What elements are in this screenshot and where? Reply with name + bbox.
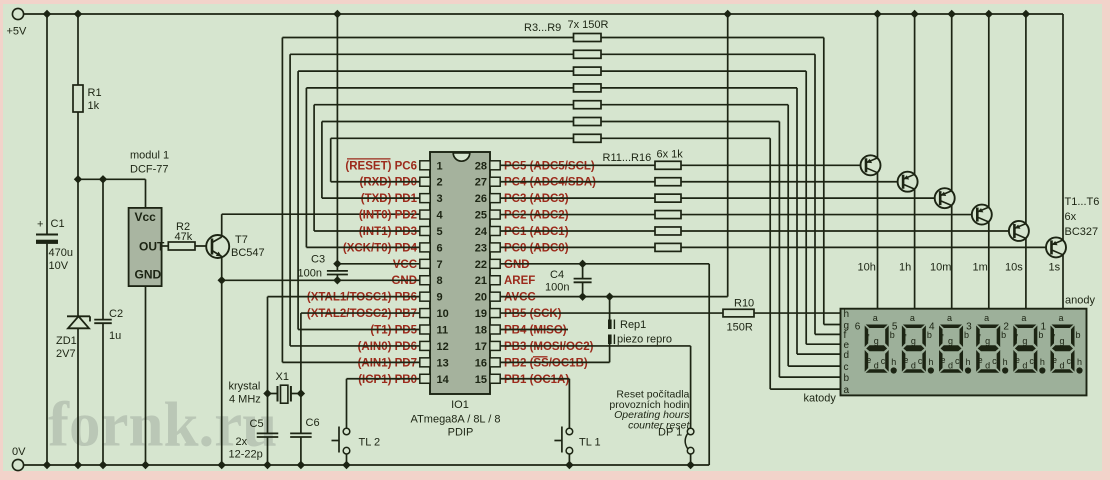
transistor T4 <box>972 205 992 225</box>
wire +5V to VCC pin7 <box>333 10 420 268</box>
label 6x <box>1065 211 1077 223</box>
wire C5 to ground <box>263 437 271 469</box>
svg-text:b: b <box>1076 330 1081 340</box>
svg-text:17: 17 <box>475 341 487 353</box>
svg-text:a: a <box>947 313 952 323</box>
IC pin box 28 <box>490 161 500 170</box>
wire T6 collector to display <box>1062 255 1064 309</box>
capacitor C2 <box>94 308 123 342</box>
svg-text:25: 25 <box>475 210 487 222</box>
resistor R8 <box>574 118 602 126</box>
svg-text:PC3 (ADC3): PC3 (ADC3) <box>504 193 569 205</box>
display block katody label <box>804 393 837 405</box>
display cathode pin g <box>844 320 850 331</box>
resistor R16 <box>655 243 681 251</box>
IC pin number 16 <box>475 357 487 369</box>
svg-text:10s: 10s <box>1005 262 1023 274</box>
svg-text:10: 10 <box>437 308 449 320</box>
IC pin number 24 <box>475 226 488 238</box>
+5V terminal <box>7 8 28 37</box>
svg-text:(TXD) PD1: (TXD) PD1 <box>361 193 418 205</box>
svg-text:h: h <box>1003 357 1008 367</box>
IC pin 9 label (XTAL1/TOSC1) PB6 <box>307 292 417 304</box>
resistor R3 <box>574 34 602 42</box>
wire R9 row right <box>601 138 842 389</box>
svg-text:(T1) PD5: (T1) PD5 <box>370 325 417 337</box>
label R3...R9 <box>524 22 561 34</box>
IC pin 13 label (AIN1) PD7 <box>358 357 417 369</box>
svg-text:C2: C2 <box>109 308 123 320</box>
resistor R14 <box>655 211 681 219</box>
svg-text:0V: 0V <box>12 446 26 458</box>
resistor R10 <box>723 298 754 334</box>
svg-text:c: c <box>1067 356 1072 366</box>
display module body <box>841 309 1087 396</box>
resistor R7 <box>574 101 602 109</box>
IC part ATmega8A / 8L / 8 <box>411 414 501 426</box>
svg-text:BC547: BC547 <box>231 247 265 259</box>
svg-text:h: h <box>1040 357 1045 367</box>
label 10h <box>858 262 876 274</box>
svg-text:c: c <box>992 356 997 366</box>
wire C2 branch <box>102 179 104 319</box>
pushbutton TL 1 <box>554 427 600 470</box>
svg-text:2: 2 <box>437 177 443 189</box>
wire piezo to PB2 pin16 <box>500 344 609 362</box>
svg-text:c: c <box>881 356 886 366</box>
svg-text:h: h <box>966 357 971 367</box>
svg-text:24: 24 <box>475 226 488 238</box>
resistor R15 <box>655 227 681 235</box>
svg-text:g: g <box>1022 336 1027 346</box>
IC pin number 11 <box>437 325 449 337</box>
svg-text:10V: 10V <box>49 260 69 272</box>
wire R14 to T4 base <box>681 214 972 216</box>
svg-text:PDIP: PDIP <box>448 427 474 439</box>
svg-text:g: g <box>948 336 953 346</box>
wire R13 to T3 base <box>681 197 935 199</box>
label 1m <box>973 262 988 274</box>
svg-text:TL 1: TL 1 <box>579 437 601 449</box>
wire C3 to GND row <box>333 275 341 285</box>
svg-text:d: d <box>1022 361 1027 371</box>
resistor R5 <box>574 67 602 75</box>
IC pin number 26 <box>475 193 487 205</box>
svg-text:28: 28 <box>475 160 487 172</box>
svg-text:Rep1: Rep1 <box>620 319 646 331</box>
svg-text:+5V: +5V <box>7 26 28 38</box>
svg-text:PB5 (SCK): PB5 (SCK) <box>504 308 562 320</box>
wire T4 collector to display <box>988 222 990 309</box>
display digit 3 <box>966 313 1008 374</box>
resistor R11 <box>655 161 681 169</box>
svg-text:d: d <box>911 361 916 371</box>
svg-text:470u: 470u <box>49 247 73 259</box>
IC package PDIP <box>448 427 474 439</box>
wire R15 to T5 base <box>681 230 1009 232</box>
svg-text:a: a <box>1021 313 1026 323</box>
IC pin box 27 <box>490 177 500 186</box>
svg-text:VCC: VCC <box>393 259 417 271</box>
IC pin 12 label (AIN0) PD6 <box>358 341 417 353</box>
svg-text:8: 8 <box>437 275 443 287</box>
svg-text:R3...R9: R3...R9 <box>524 22 561 34</box>
wire C6 to ground <box>297 437 305 469</box>
IC pin box 25 <box>490 210 500 219</box>
IC pin box 10 <box>420 309 430 318</box>
svg-text:C3: C3 <box>311 254 325 266</box>
IC pin number 13 <box>437 357 449 369</box>
svg-text:7x 150R: 7x 150R <box>568 19 609 31</box>
svg-text:5: 5 <box>892 322 898 333</box>
IC pin 17 label PB3 (MOSI/OC2) <box>504 341 594 353</box>
label 10s <box>1005 262 1023 274</box>
svg-text:PB1 (OC1A): PB1 (OC1A) <box>504 374 569 386</box>
svg-text:(XCK/T0) PD4: (XCK/T0) PD4 <box>343 242 418 254</box>
svg-text:3: 3 <box>966 322 972 333</box>
transistor T6 <box>1046 237 1066 257</box>
svg-text:4: 4 <box>437 210 444 222</box>
wire GND pin22 to ground rail <box>500 260 709 465</box>
wire C2 to ground <box>99 323 107 469</box>
svg-text:PB2 (SS/OC1B): PB2 (SS/OC1B) <box>504 357 588 369</box>
IC pin number 27 <box>475 177 487 189</box>
IC pin 15 label PB1 (OC1A) <box>504 374 569 386</box>
svg-text:e: e <box>1052 355 1057 365</box>
IC pin 22 label GND <box>504 259 530 271</box>
svg-text:10h: 10h <box>858 262 876 274</box>
svg-text:OUT: OUT <box>139 240 165 254</box>
wire R6 row left <box>306 88 573 248</box>
wire R4 row left <box>290 54 573 346</box>
IC pin box 21 <box>490 276 500 285</box>
svg-text:5: 5 <box>437 226 443 238</box>
IC pin box 17 <box>490 341 500 350</box>
label 7x 150R <box>568 19 609 31</box>
IC pin number 10 <box>437 308 449 320</box>
svg-text:d: d <box>844 350 850 361</box>
IC pin number 28 <box>475 160 487 172</box>
IC pin number 1 <box>437 160 443 172</box>
svg-text:1: 1 <box>1041 322 1047 333</box>
wire R8 row right <box>601 122 842 378</box>
svg-text:100n: 100n <box>298 268 322 280</box>
resistor R1 <box>73 85 102 112</box>
wire R9 row left <box>331 138 574 181</box>
display digit 6 <box>855 313 897 374</box>
label BC327 <box>1065 226 1099 238</box>
wire R12 to T2 base <box>681 181 898 183</box>
wire T3 emitter to +5V <box>948 10 956 191</box>
IC pin number 9 <box>437 292 443 304</box>
svg-text:g: g <box>985 336 990 346</box>
svg-text:1: 1 <box>437 160 443 172</box>
IC pin number 6 <box>437 242 443 254</box>
svg-text:C5: C5 <box>250 418 264 430</box>
label 1s <box>1049 262 1061 274</box>
resistor R4 <box>574 50 602 58</box>
svg-text:b: b <box>844 373 850 384</box>
display cathode pin f <box>844 330 847 341</box>
wire pin25 to R14 <box>500 214 655 216</box>
wire R3 row left <box>282 38 573 363</box>
svg-text:e: e <box>1015 355 1020 365</box>
svg-text:R1: R1 <box>88 87 102 99</box>
IC pin number 8 <box>437 275 443 287</box>
svg-text:(AIN1) PD7: (AIN1) PD7 <box>358 357 417 369</box>
IC pin 27 label PC4 (ADC4/SDA) <box>504 177 596 189</box>
wire +5V top rail <box>24 13 1063 15</box>
wire module OUT to R2 <box>162 245 169 247</box>
wire R16 to T6 base <box>681 246 1046 248</box>
IC pin 26 label PC3 (ADC3) <box>504 193 569 205</box>
svg-text:a: a <box>910 313 915 323</box>
wire GND pin8 row <box>222 279 420 281</box>
wire T5 emitter to +5V <box>1022 10 1030 224</box>
IC pin box 24 <box>490 226 500 235</box>
capacitor C1 <box>36 218 73 272</box>
IC pin number 21 <box>475 275 487 287</box>
IC pin box 23 <box>490 243 500 252</box>
svg-text:h: h <box>1077 357 1082 367</box>
wire T2 emitter to +5V <box>910 10 918 175</box>
IC pin 18 label PB4 (MISO) <box>504 325 567 337</box>
IC pin box 12 <box>420 341 430 350</box>
svg-text:22: 22 <box>475 259 487 271</box>
IC pin number 19 <box>475 308 487 320</box>
IC pin box 22 <box>490 259 500 268</box>
svg-text:19: 19 <box>475 308 487 320</box>
svg-text:7: 7 <box>437 259 443 271</box>
crystal X1 <box>263 371 305 403</box>
wire T4 emitter to +5V <box>985 10 993 207</box>
IC pin number 12 <box>437 341 449 353</box>
svg-text:AVCC: AVCC <box>504 292 536 304</box>
svg-text:PB4 (MISO): PB4 (MISO) <box>504 325 567 337</box>
svg-text:16: 16 <box>475 357 487 369</box>
IC pin box 15 <box>490 374 500 383</box>
transistor T7 <box>206 234 264 259</box>
pushbutton TL 2 <box>332 427 381 470</box>
capacitor C6 <box>290 394 319 438</box>
svg-text:6: 6 <box>855 322 861 333</box>
transistor T2 <box>898 172 918 192</box>
0V terminal <box>12 446 26 471</box>
svg-text:c: c <box>918 356 923 366</box>
wire pin24 to R15 <box>500 230 655 232</box>
IC pin 3 label (TXD) PD1 <box>361 193 418 205</box>
label R11...R16 <box>603 152 652 164</box>
svg-text:14: 14 <box>437 374 450 386</box>
svg-text:1s: 1s <box>1049 262 1061 274</box>
transistor T3 <box>935 188 955 208</box>
wire pin27 to R12 <box>500 181 655 183</box>
label 2x 12-22p <box>229 436 263 461</box>
svg-text:PB3 (MOSI/OC2): PB3 (MOSI/OC2) <box>504 341 594 353</box>
svg-text:GND: GND <box>391 275 417 287</box>
IC pin 21 label AREF <box>504 275 535 287</box>
svg-text:katody: katody <box>804 393 837 405</box>
IC pin box 1 <box>420 161 430 170</box>
svg-text:6x 1k: 6x 1k <box>657 149 684 161</box>
svg-text:6x: 6x <box>1065 211 1077 223</box>
IC pin 28 label PC5 (ADC5/SCL) <box>504 160 595 172</box>
wire R3 row right <box>601 38 842 325</box>
IC pin 11 label (T1) PD5 <box>370 325 417 337</box>
svg-text:e: e <box>866 355 871 365</box>
svg-text:h: h <box>891 357 896 367</box>
svg-text:ZD1: ZD1 <box>56 335 77 347</box>
IC pin 19 label PB5 (SCK) <box>504 308 562 320</box>
svg-text:DCF-77: DCF-77 <box>130 164 169 176</box>
svg-text:c: c <box>844 362 849 373</box>
svg-text:g: g <box>874 336 879 346</box>
wire ZD1 to ground <box>74 328 82 469</box>
wire R4 row right <box>601 54 842 334</box>
svg-text:1h: 1h <box>899 262 911 274</box>
svg-text:12-22p: 12-22p <box>229 449 263 461</box>
svg-text:a: a <box>984 313 989 323</box>
svg-text:d: d <box>1060 361 1065 371</box>
svg-text:(XTAL2/TOSC2) PB7: (XTAL2/TOSC2) PB7 <box>307 308 417 320</box>
svg-text:T1...T6: T1...T6 <box>1065 196 1100 208</box>
IC pin box 19 <box>490 309 500 318</box>
wire T1 collector to display <box>877 173 879 309</box>
display cathode pin h <box>844 309 850 320</box>
wire C1 branch <box>43 10 51 469</box>
IC pin 10 label (XTAL2/TOSC2) PB7 <box>307 308 417 320</box>
svg-text:g: g <box>1060 336 1065 346</box>
IC pin 2 label (RXD) PD0 <box>359 177 417 189</box>
svg-text:R11...R16: R11...R16 <box>603 152 652 164</box>
wire R6 row right <box>601 88 842 354</box>
svg-text:anody: anody <box>1065 295 1095 307</box>
svg-text:ATmega8A / 8L / 8: ATmega8A / 8L / 8 <box>411 414 501 426</box>
label 1h <box>899 262 911 274</box>
IC pin box 18 <box>490 325 500 334</box>
IC designator IO1 <box>451 399 469 411</box>
IC pin number 14 <box>437 374 450 386</box>
svg-text:20: 20 <box>475 292 487 304</box>
IC pin box 5 <box>420 226 430 235</box>
IC pin number 4 <box>437 210 444 222</box>
IC pin box 8 <box>420 276 430 285</box>
IC pin box 4 <box>420 210 430 219</box>
note reset counter <box>609 389 690 432</box>
IC pin 20 label AVCC <box>504 292 536 304</box>
svg-text:BC327: BC327 <box>1065 226 1099 238</box>
resistor R6 <box>574 84 602 92</box>
module U-DCF77 label <box>130 150 169 176</box>
resistor R9 <box>574 134 602 142</box>
svg-text:(AIN0) PD6: (AIN0) PD6 <box>358 341 417 353</box>
svg-text:e: e <box>978 355 983 365</box>
svg-text:T7: T7 <box>235 234 248 246</box>
svg-text:h: h <box>928 357 933 367</box>
svg-text:h: h <box>844 309 850 320</box>
display digit 2 <box>1003 313 1045 374</box>
svg-text:PC2 (ADC2): PC2 (ADC2) <box>504 210 569 222</box>
wire PB1 pin15 to TL1 <box>500 379 569 428</box>
svg-text:(RXD) PD0: (RXD) PD0 <box>359 177 417 189</box>
IC pin box 14 <box>420 374 430 383</box>
svg-text:3: 3 <box>437 193 443 205</box>
svg-text:2x: 2x <box>236 436 248 448</box>
display cathode pin a <box>844 385 850 396</box>
display cathode pin c <box>844 362 849 373</box>
IC pin number 20 <box>475 292 487 304</box>
svg-text:GND: GND <box>504 259 530 271</box>
transistor T5 <box>1009 221 1029 241</box>
svg-text:PC1 (ADC1): PC1 (ADC1) <box>504 226 569 238</box>
wire T5 collector to display <box>1025 238 1027 308</box>
IC pin 14 label (ICP1) PB0 <box>358 374 417 386</box>
IC pin 7 label VCC <box>393 259 417 271</box>
capacitor C4 <box>545 264 592 297</box>
wire T3 collector to display <box>951 206 953 309</box>
IC pin box 2 <box>420 177 430 186</box>
IC pin number 18 <box>475 325 487 337</box>
svg-text:15: 15 <box>475 374 487 386</box>
svg-text:counter reset: counter reset <box>628 419 690 431</box>
IC pin 1 label (RESET) PC6 with overline <box>345 159 417 172</box>
IC pin box 16 <box>490 358 500 367</box>
display cathode pin d <box>844 350 850 361</box>
IC pin 23 label PC0 (ADC0) <box>504 242 569 254</box>
display cathode pin b <box>844 373 850 384</box>
svg-text:modul 1: modul 1 <box>130 150 169 162</box>
IC pin 5 label (INT1) PD3 <box>359 226 417 238</box>
IC pin 6 label (XCK/T0) PD4 <box>343 242 418 254</box>
piezo Rep1 <box>608 319 672 346</box>
IC pin box 26 <box>490 194 500 203</box>
wire supply row to module <box>78 175 146 208</box>
svg-text:X1: X1 <box>276 371 289 383</box>
svg-text:47k: 47k <box>175 231 193 243</box>
IC pin number 22 <box>475 259 487 271</box>
wire R2 to T7 base <box>195 245 212 247</box>
svg-text:6: 6 <box>437 242 443 254</box>
display block anody label <box>1065 295 1095 307</box>
display digit 1 <box>1041 313 1083 374</box>
svg-text:2V7: 2V7 <box>56 348 76 360</box>
IC pin number 3 <box>437 193 443 205</box>
wire PB3 pin17 to DP1 <box>500 346 690 428</box>
op IC IO1 ATmega8A body <box>430 152 490 394</box>
svg-text:Vcc: Vcc <box>135 210 157 224</box>
wire module GND to ground <box>141 286 149 469</box>
svg-text:c: c <box>1029 356 1034 366</box>
IC pin number 7 <box>437 259 443 271</box>
wire R5 row right <box>601 71 842 344</box>
wire PB5 pin19 to R10 <box>500 312 723 314</box>
svg-text:4: 4 <box>929 322 935 333</box>
resistor R12 <box>655 178 681 186</box>
IC pin box 13 <box>420 358 430 367</box>
svg-text:+: + <box>37 219 43 231</box>
svg-text:100n: 100n <box>545 282 569 294</box>
svg-text:C4: C4 <box>550 269 564 281</box>
svg-text:e: e <box>903 355 908 365</box>
wire T2 collector to display <box>914 189 916 309</box>
capacitor C5 <box>250 394 279 438</box>
display digit 4 <box>929 313 971 374</box>
svg-text:1m: 1m <box>973 262 988 274</box>
svg-text:PC4 (ADC4/SDA): PC4 (ADC4/SDA) <box>504 177 596 189</box>
wire R11 to T1 base <box>681 164 861 166</box>
svg-text:(XTAL1/TOSC1) PB6: (XTAL1/TOSC1) PB6 <box>307 292 417 304</box>
wire AVCC pin20 to +5V <box>500 10 732 301</box>
